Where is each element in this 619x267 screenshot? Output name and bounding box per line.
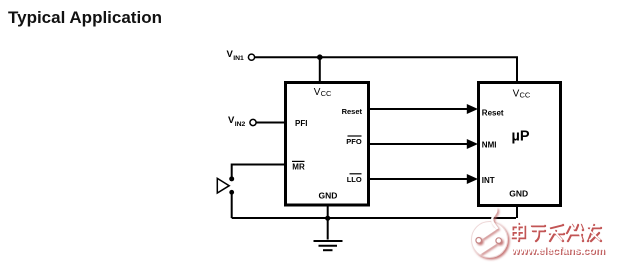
svg-text:CC: CC xyxy=(520,91,531,100)
svg-text:µP: µP xyxy=(512,129,530,145)
svg-text:Reset: Reset xyxy=(482,108,504,117)
svg-text:MR: MR xyxy=(292,163,305,172)
svg-text:PFO: PFO xyxy=(346,137,362,146)
svg-text:CC: CC xyxy=(321,89,332,98)
svg-text:GND: GND xyxy=(318,191,337,201)
svg-text:IN2: IN2 xyxy=(235,121,246,128)
svg-text:PFI: PFI xyxy=(295,119,307,128)
svg-text:Typical Application: Typical Application xyxy=(8,8,162,27)
svg-text:NMI: NMI xyxy=(482,140,497,149)
svg-text:LLO: LLO xyxy=(347,175,362,184)
svg-text:IN1: IN1 xyxy=(233,55,244,62)
svg-text:Reset: Reset xyxy=(342,107,363,116)
svg-text:GND: GND xyxy=(509,189,528,199)
svg-text:INT: INT xyxy=(482,176,495,185)
svg-text:www.elecfans.com: www.elecfans.com xyxy=(510,245,605,257)
